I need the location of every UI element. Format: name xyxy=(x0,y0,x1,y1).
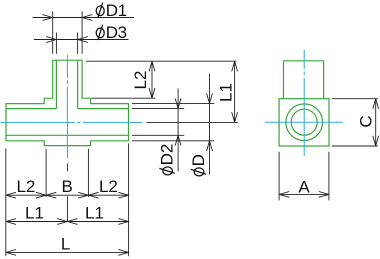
bottom extension line center xyxy=(66,163,68,222)
body bottom extension line xyxy=(132,140,214,142)
phiD3 dimension line xyxy=(34,39,129,41)
phiD1 dimension line xyxy=(33,17,135,19)
outer bore circle (right view) xyxy=(286,104,323,141)
phiD3 extension line left xyxy=(55,33,57,54)
C arrow bottom xyxy=(373,136,379,146)
bottom extension line far right xyxy=(128,143,130,256)
svg-text:L1: L1 xyxy=(217,83,236,102)
branch tube (right view) xyxy=(284,61,324,99)
centerline extension for L1 xyxy=(147,121,238,123)
A dimension line xyxy=(279,193,329,195)
L2-B-L2 dimension line xyxy=(6,194,129,196)
row1 arrow far left xyxy=(6,192,16,198)
L2 arrow bottom xyxy=(149,88,155,98)
A extension line left xyxy=(278,152,280,201)
horizontal centerline left view xyxy=(1,121,143,123)
L dimension line xyxy=(6,251,129,253)
label phiD1 xyxy=(96,1,127,20)
run bore top line left segment xyxy=(6,108,56,110)
svg-text:B: B xyxy=(62,177,73,196)
svg-text:A: A xyxy=(298,177,310,196)
branch bore left wall xyxy=(55,60,57,108)
phiD1 arrow right xyxy=(82,15,92,21)
phiD arrow top xyxy=(207,93,213,103)
C arrow top xyxy=(373,99,379,109)
A arrow right xyxy=(319,192,329,198)
label L2 upper (rotated) xyxy=(131,71,150,90)
svg-text:L2: L2 xyxy=(99,177,118,196)
horizontal centerline right view xyxy=(265,121,343,123)
svg-text:D1: D1 xyxy=(106,1,127,20)
phiD1 extension line right xyxy=(81,11,83,54)
vertical centerline left view xyxy=(66,55,68,159)
L1 arrow top xyxy=(232,61,238,71)
L1 arrow bottom xyxy=(232,112,238,122)
label phiD3 xyxy=(96,23,127,42)
label phiD2 (rotated) xyxy=(158,144,177,175)
L1 dimension line xyxy=(234,61,236,122)
bottom extension line bulge right xyxy=(87,149,89,197)
A extension line right xyxy=(328,152,330,201)
bore top extension line xyxy=(132,108,184,110)
svg-text:L: L xyxy=(61,234,70,253)
C bottom extension line xyxy=(332,145,378,147)
bottom extension line far left xyxy=(5,148,7,256)
svg-text:L2: L2 xyxy=(16,177,35,196)
phiD3 arrow left xyxy=(46,37,56,43)
svg-text:D: D xyxy=(189,154,208,166)
svg-text:D3: D3 xyxy=(106,23,127,42)
row2 arrow far left xyxy=(6,219,16,225)
phiD3 extension line right xyxy=(77,33,79,54)
vertical centerline right view xyxy=(303,50,305,156)
label L1 upper (rotated) xyxy=(217,83,236,102)
svg-text:D2: D2 xyxy=(158,144,177,166)
phiD2 arrow bottom xyxy=(175,135,181,145)
L1-L1 dimension line xyxy=(6,221,129,223)
tee body outline (left view) xyxy=(6,60,129,145)
svg-text:L1: L1 xyxy=(85,204,104,223)
L2 dimension line xyxy=(151,61,153,98)
branch bore right wall xyxy=(77,60,79,108)
phiD1 extension line left xyxy=(52,11,54,54)
C top extension line xyxy=(332,98,378,100)
row2 arrow far right xyxy=(118,219,128,225)
row3 arrow right xyxy=(118,250,128,256)
phiD3 arrow right xyxy=(78,37,88,43)
row1 arrow far right xyxy=(118,192,128,198)
square body (right view) xyxy=(279,99,329,146)
svg-text:L2: L2 xyxy=(131,71,150,90)
body top extension line xyxy=(132,103,214,105)
row1 arrows at bulge left xyxy=(36,192,56,198)
phiD arrow bottom xyxy=(207,141,213,151)
phiD2 dimension line xyxy=(177,88,179,171)
L2 arrow top xyxy=(149,61,155,71)
label C (rotated) xyxy=(357,115,376,127)
run bore bottom line xyxy=(6,134,129,136)
phiD2 arrow top xyxy=(175,98,181,108)
inner bore circle (right view) xyxy=(291,109,317,135)
svg-text:C: C xyxy=(357,115,376,127)
row1 arrows at bulge right xyxy=(78,192,98,198)
A arrow left xyxy=(279,192,289,198)
branch top extension line xyxy=(86,60,236,62)
shoulder ledge extension line xyxy=(92,97,156,99)
C dimension line xyxy=(375,99,377,146)
row3 arrow left xyxy=(6,250,16,256)
phiD dimension line xyxy=(209,74,211,175)
label phiD (rotated) xyxy=(189,154,208,176)
run bore top line right segment xyxy=(78,108,129,110)
bore bottom extension line xyxy=(132,134,184,136)
svg-text:L1: L1 xyxy=(25,204,44,223)
phiD1 arrow left xyxy=(43,15,53,21)
row2 arrows at center xyxy=(57,219,77,225)
bottom extension line bulge left xyxy=(45,149,47,197)
